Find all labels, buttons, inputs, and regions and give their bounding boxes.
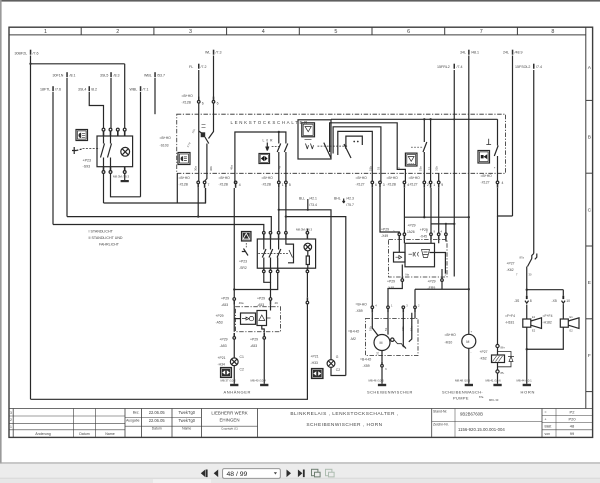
svg-text:-X49: -X49: [381, 234, 388, 238]
svg-text:/8.3: /8.3: [114, 74, 120, 78]
svg-text:3: 3: [383, 183, 385, 187]
svg-text:M8:46 /10.5: M8:46 /10.5: [369, 379, 385, 383]
svg-text:-A26: -A26: [408, 230, 415, 234]
motor M2 wires in: [372, 313, 415, 349]
A53 bottom connectors: [234, 333, 236, 336]
tag BLL: [307, 199, 309, 210]
wire WBL53 vertical: [154, 78, 156, 114]
left rows: [9, 415, 125, 417]
svg-text:/7.1: /7.1: [143, 88, 149, 92]
svg-text:=B+HO: =B+HO: [409, 176, 421, 180]
svg-text:-H182: -H182: [543, 320, 552, 324]
right row band line: [585, 27, 587, 408]
svg-text:/42.3: /42.3: [346, 196, 354, 200]
left revision section verticals: [12, 409, 14, 438]
A53 output jog: [262, 326, 264, 333]
motor park contact: [394, 340, 404, 348]
svg-text:/7.4: /7.4: [536, 65, 542, 69]
svg-text:-X59: -X59: [363, 364, 370, 368]
A26 nozzle output wire: [430, 253, 446, 274]
hazard icon box: [242, 232, 252, 242]
wire A26 out to X59-1: [388, 281, 402, 305]
tag BHL tick: [343, 199, 345, 204]
svg-text:8: 8: [530, 299, 532, 303]
svg-text:/8.1: /8.1: [70, 74, 76, 78]
washer feed horizontal: [415, 289, 469, 306]
turn switch contacts: [277, 132, 288, 152]
svg-text:-X49: -X49: [387, 286, 394, 290]
long return wire to 30BF2L: [31, 304, 308, 399]
svg-text:HORN: HORN: [521, 389, 536, 394]
svg-text:-X12B: -X12B: [182, 100, 192, 104]
svg-text:53b: 53b: [369, 166, 373, 171]
svg-text:WBL: WBL: [130, 88, 138, 92]
svg-text:+: +: [471, 330, 473, 334]
wiper lever arrows: [306, 144, 314, 150]
flasher unit A53 dashed box: [236, 307, 281, 332]
wire 30F1N vertical: [66, 78, 68, 217]
svg-text:-H181: -H181: [505, 320, 514, 324]
wire 34L feed H1: [404, 216, 468, 218]
wire line1 to S103 output: [104, 188, 206, 203]
pin stubs S93 bottom: [104, 167, 125, 171]
svg-text:Datum: Datum: [79, 432, 90, 436]
svg-text:C: C: [588, 207, 592, 213]
svg-text:+P29: +P29: [257, 297, 265, 301]
wire S93 pin1 to line1: [103, 174, 105, 204]
svg-text:6: 6: [407, 29, 410, 35]
S92 internal link wire: [286, 239, 294, 263]
svg-text:-S103: -S103: [160, 143, 169, 147]
wire 24L vertical: [512, 56, 514, 217]
svg-text:/42.1: /42.1: [309, 196, 317, 200]
wire 15FSOL2 vertical: [533, 70, 535, 254]
motor M2 circle: [374, 335, 390, 351]
svg-text:+P23: +P23: [239, 260, 247, 264]
svg-text:87a: 87a: [479, 395, 484, 399]
svg-text:-X12B: -X12B: [262, 182, 272, 186]
wire 24L to coil top: [498, 188, 513, 216]
turn switch L0R loop: [235, 132, 286, 183]
lenkstock labels: [160, 94, 504, 187]
svg-text:Copyright (C): Copyright (C): [221, 427, 238, 431]
svg-text:M8:41 /10.6: M8:41 /10.6: [486, 379, 502, 383]
svg-text:Stand-Nr.: Stand-Nr.: [433, 410, 447, 414]
svg-text:-X12B: -X12B: [219, 182, 229, 186]
svg-text:+P27: +P27: [480, 350, 488, 354]
svg-text:-SR2: -SR2: [239, 266, 247, 270]
svg-text:E1: E1: [532, 315, 536, 319]
svg-text:-A53: -A53: [257, 303, 264, 307]
wire interval out to H1: [423, 188, 425, 217]
interval wiper contact: [423, 119, 427, 181]
svg-text:22.06.05: 22.06.05: [149, 418, 166, 423]
svg-text:1: 1: [433, 183, 435, 187]
svg-text:15: 15: [428, 166, 432, 170]
svg-text:86+: 86+: [501, 345, 506, 349]
small table rows: [542, 415, 593, 417]
svg-text:49a: 49a: [230, 165, 234, 170]
wire stub from lenkstock box to line1: [176, 173, 178, 203]
svg-text:L 0 R: L 0 R: [263, 139, 274, 143]
svg-text:M8:L 30: M8:L 30: [489, 398, 499, 402]
svg-text:30F1N: 30F1N: [53, 74, 64, 78]
ground bar horn: [523, 384, 531, 386]
svg-text:8: 8: [551, 29, 554, 35]
svg-text:/75.7: /75.7: [346, 203, 354, 207]
connector X12B out a: [197, 181, 200, 184]
toolbar page icon 1: [312, 469, 321, 477]
svg-text:M: M: [466, 340, 469, 344]
svg-text:+P29: +P29: [221, 297, 229, 301]
svg-text:Name: Name: [182, 427, 191, 431]
svg-text:3SL5: 3SL5: [100, 74, 108, 78]
ground bar K62: [493, 384, 501, 386]
svg-text:+P21: +P21: [218, 356, 226, 360]
A53 relay element: [241, 313, 256, 324]
connector X12B-4 left: [234, 181, 237, 184]
svg-text:B: B: [588, 135, 591, 141]
svg-text:18FTL: 18FTL: [40, 88, 50, 92]
nav prev button: [214, 470, 219, 478]
svg-text:+P29: +P29: [216, 314, 224, 318]
svg-text:6: 6: [217, 102, 219, 106]
svg-text:4: 4: [239, 183, 241, 187]
svg-text:=F+F4: =F+F4: [543, 314, 553, 318]
svg-text:3: 3: [189, 29, 192, 35]
wiper control unit A26 dashed box: [389, 240, 448, 278]
horn H182: [560, 319, 568, 327]
node junction 30BF2L: [29, 63, 31, 65]
svg-text:31: 31: [375, 351, 379, 355]
svg-text:TwekTg0: TwekTg0: [178, 410, 195, 415]
svg-text:/7.4: /7.4: [457, 65, 463, 69]
wire S92 pin return: [234, 272, 277, 289]
svg-text:E: E: [588, 280, 591, 286]
svg-text:/48.9: /48.9: [515, 50, 523, 54]
svg-text:/48.1: /48.1: [471, 50, 479, 54]
pin circles S93 top: [102, 128, 126, 131]
wire FL vertical: [198, 70, 200, 100]
interval icon box: [405, 153, 417, 166]
svg-text:=B+HO: =B+HO: [445, 333, 457, 337]
svg-text:15FRL2: 15FRL2: [437, 65, 450, 69]
horn2 branch: [562, 290, 564, 296]
headlight icon box: [76, 130, 88, 141]
labels right section: [348, 224, 573, 403]
K62 suppression diode: [498, 352, 512, 367]
motor M2 output: [381, 351, 383, 362]
X59 connector row: [371, 306, 416, 313]
svg-text:C1: C1: [240, 355, 244, 359]
manual lever symbol S93: [72, 147, 76, 154]
nav first-page button: [201, 470, 218, 478]
wire pin9 to X45: [438, 188, 440, 233]
rotated wire number labels: [194, 165, 439, 355]
svg-text:3: 3: [10, 411, 12, 415]
wiper link dashes: [318, 145, 348, 147]
svg-text:1: 1: [10, 425, 12, 429]
A26 internal stubs: [399, 240, 446, 253]
svg-text:-X127: -X127: [409, 182, 418, 186]
svg-text:SCHEIBENWISCHER: SCHEIBENWISCHER: [367, 389, 413, 394]
horn relay K62 contact: [532, 254, 534, 259]
A53 triangle element: [257, 311, 267, 326]
hazard switch box S92: [257, 239, 315, 268]
svg-text:M8:37 /10.2: M8:37 /10.2: [221, 379, 237, 383]
horn1 connector: [526, 296, 528, 299]
relay K62 coil: [496, 344, 499, 347]
svg-text:48: 48: [570, 424, 575, 429]
svg-text:=B+HO: =B+HO: [360, 358, 372, 362]
svg-text:BLINKRELAIS , LENKSTOCKSCHALTE: BLINKRELAIS , LENKSTOCKSCHALTER ,: [290, 411, 398, 417]
tag M8 lamp feed: [306, 229, 308, 232]
switch S103 contact block: [201, 132, 206, 137]
svg-text:/8.2: /8.2: [91, 88, 97, 92]
svg-text:/7.6: /7.6: [33, 51, 39, 55]
svg-text:1: 1: [44, 29, 47, 35]
labels hazard and trailer: [216, 196, 354, 394]
svg-text:F: F: [588, 353, 591, 359]
svg-text:C2: C2: [336, 368, 340, 372]
svg-text:C2: C2: [240, 368, 244, 372]
lever arrow: [266, 143, 269, 151]
wire turn right output: [285, 188, 287, 232]
svg-text:+P23: +P23: [83, 159, 92, 163]
wire WBL7 vertical: [140, 92, 142, 197]
svg-text:=: =: [545, 411, 547, 415]
wire to trailer pilot lamp H34: [233, 339, 235, 358]
svg-text:49: 49: [278, 165, 282, 169]
svg-text:Zeichn-Nr.: Zeichn-Nr.: [433, 423, 449, 427]
wiper contact arm a: [324, 143, 331, 158]
svg-text:-X5: -X5: [552, 299, 557, 303]
svg-text:TwekTg0: TwekTg0: [178, 418, 195, 423]
ground bar pump: [465, 384, 473, 386]
svg-text:+P29: +P29: [428, 279, 436, 283]
svg-text:+P21: +P21: [311, 355, 319, 359]
svg-text:10: 10: [566, 299, 570, 303]
connector A53-49: [269, 298, 272, 301]
ground bar M8-46: [378, 384, 386, 386]
A26 inner module box: [405, 243, 435, 266]
svg-text:-K62: -K62: [507, 268, 514, 272]
horn H181: [523, 319, 531, 327]
A26 spray symbol: [422, 250, 430, 258]
ground bar M8-40: [260, 384, 268, 386]
svg-text:7: 7: [480, 29, 483, 35]
svg-text:=B+HO: =B+HO: [356, 303, 368, 307]
wire WL below connector: [209, 103, 214, 138]
S92 top pins: [263, 232, 309, 240]
wire S92 lamp output to feed loop: [306, 273, 308, 298]
wires into A53: [234, 305, 270, 332]
svg-text:Na: Na: [406, 273, 410, 277]
nav last-page button: [298, 470, 303, 478]
interval link dashes: [411, 146, 423, 148]
contact dots: [353, 141, 355, 143]
svg-text:/73.4: /73.4: [309, 203, 317, 207]
pump M10 ground wire: [468, 348, 470, 384]
wire pin9 stub: [438, 173, 440, 181]
svg-text:9: 9: [441, 183, 443, 187]
svg-text:FL: FL: [189, 65, 193, 69]
top column band line: [9, 34, 586, 36]
wiper contact arm b: [344, 144, 351, 158]
svg-text:/7.2: /7.2: [201, 65, 207, 69]
svg-text:49a: 49a: [239, 301, 244, 305]
svg-text:5: 5: [289, 183, 291, 187]
svg-text:M8:44 /10.1: M8:44 /10.1: [517, 379, 533, 383]
connector X12B out b: [203, 181, 206, 184]
wire washer switch: [430, 119, 432, 181]
svg-text:3SL4: 3SL4: [78, 88, 86, 92]
svg-text:-H34: -H34: [218, 362, 225, 366]
svg-text:FAHRLICHT: FAHRLICHT: [99, 243, 120, 247]
svg-text:-X127: -X127: [356, 182, 365, 186]
svg-text:P2: P2: [570, 410, 576, 415]
trailer icon box right: [312, 369, 324, 379]
wire S103 output: [205, 144, 207, 182]
svg-text:-: -: [471, 350, 472, 354]
page number field: [223, 469, 281, 479]
svg-text:+P29: +P29: [381, 227, 389, 231]
svg-text:-A53: -A53: [220, 344, 227, 348]
horn feed split: [527, 289, 564, 291]
toolbar page icon 2: [326, 469, 335, 477]
wiper switch assembly box: [298, 120, 331, 159]
svg-text:=B+HO: =B+HO: [160, 136, 172, 140]
svg-text:-3S: -3S: [514, 299, 520, 303]
svg-text:=B+HO: =B+HO: [387, 176, 399, 180]
wire connector7 down to line2: [197, 188, 199, 217]
svg-text:-K62: -K62: [480, 357, 487, 361]
svg-text:=B+HO: =B+HO: [179, 176, 191, 180]
svg-text:53: 53: [377, 166, 381, 170]
svg-text:-X45: -X45: [420, 234, 427, 238]
row letters: [588, 65, 592, 359]
link dashes L0R: [272, 146, 281, 148]
wire X12B4 to A26 pin: [403, 188, 405, 233]
wire 3SL4 with jog: [89, 92, 103, 128]
trailer lamp H33: [327, 360, 335, 368]
svg-text:/7.6: /7.6: [55, 88, 61, 92]
svg-text:4: 4: [502, 181, 504, 185]
svg-text:15FSOL2: 15FSOL2: [515, 65, 530, 69]
wire 30BF2L branch horizontal: [31, 63, 125, 65]
svg-text:Datum: Datum: [152, 427, 162, 431]
viewer top edge: [0, 0, 600, 2]
svg-text:LENKSTOCKSCHALTER: LENKSTOCKSCHALTER: [231, 120, 310, 125]
svg-text:1156-920.15.00.001-004: 1156-920.15.00.001-004: [458, 427, 505, 432]
A26 small element box: [394, 252, 406, 262]
pin circles S93 bottom: [102, 171, 126, 174]
S92 bottom pins: [263, 268, 309, 272]
horn1 to ground: [526, 327, 528, 384]
svg-text:WL: WL: [205, 50, 210, 54]
wire FL below connector: [198, 103, 200, 181]
S103 position texts: [186, 128, 196, 148]
svg-text:6: 6: [375, 183, 377, 187]
nav next button: [287, 470, 305, 478]
ground bar M8-37: [230, 384, 238, 386]
svg-text:-S93: -S93: [83, 165, 91, 169]
pilot lamp H34: [230, 358, 238, 366]
svg-text:48 / 99: 48 / 99: [227, 471, 248, 478]
svg-text:Ausgabe: Ausgabe: [126, 419, 139, 423]
ground bar S93: [121, 180, 129, 182]
svg-text:87a: 87a: [520, 256, 525, 260]
A26 plug symbols: [409, 252, 419, 256]
svg-text:Blatt: Blatt: [545, 425, 552, 429]
wire to A53 pin 49: [270, 282, 272, 297]
wire turn left output with branch: [278, 188, 280, 232]
S92 contacts: [264, 239, 279, 250]
S92 bottom U link: [264, 273, 271, 283]
svg-text:-H33: -H33: [311, 361, 318, 365]
wire X127-6 long down to X59: [371, 188, 373, 306]
svg-text:30a: 30a: [194, 166, 198, 171]
wire X12B4 down to A53: [233, 188, 235, 298]
wire S93 pin2 return to WBL: [111, 174, 141, 197]
svg-text:-ER9: -ER9: [428, 286, 436, 290]
svg-text:M8:3M /38.3: M8:3M /38.3: [113, 174, 129, 178]
svg-text:=B+HO: =B+HO: [219, 176, 231, 180]
svg-text:-M10: -M10: [445, 341, 453, 345]
svg-text:34L: 34L: [460, 50, 466, 54]
wire H33 loop return: [331, 367, 346, 375]
svg-text:1: 1: [282, 183, 284, 187]
relay box S93: [97, 136, 133, 167]
svg-text:BLL: BLL: [299, 196, 305, 200]
svg-text:+P29: +P29: [220, 337, 228, 341]
hazard lever symbol: [245, 243, 247, 248]
svg-text:PUMPE: PUMPE: [453, 395, 469, 400]
label 30BF2L: [15, 50, 543, 91]
horn button actuator: [486, 139, 491, 145]
svg-text:II STANDLICHT UND: II STANDLICHT UND: [89, 236, 123, 240]
connector X12B-1: [278, 181, 281, 184]
stand/zeichn divider: [432, 421, 542, 423]
svg-text:ANHÄNGER: ANHÄNGER: [224, 389, 251, 394]
S92 pilot lamp: [304, 243, 312, 251]
svg-text:-M2: -M2: [350, 337, 356, 341]
wire WL vertical: [213, 56, 215, 100]
svg-text:6: 6: [202, 102, 204, 106]
svg-text:31b: 31b: [435, 166, 439, 171]
svg-text:von: von: [545, 432, 551, 436]
wire S93 pin6 to ground: [124, 174, 126, 181]
switch S103 contact arm: [205, 137, 209, 144]
connector X12B-6b: [213, 97, 215, 100]
svg-text:Name: Name: [105, 432, 115, 436]
feed label ticks: [30, 50, 535, 91]
wire A53 right output to ground: [263, 339, 265, 383]
svg-text:2: 2: [116, 29, 119, 35]
svg-text:=B+HO: =B+HO: [262, 176, 274, 180]
connector X12B-6a: [198, 97, 200, 100]
connector row lenkstock bottom: [371, 181, 499, 188]
trailer icon box left: [221, 368, 232, 378]
top band ticks: [80, 27, 82, 35]
svg-text:M8:3M /38.3: M8:3M /38.3: [296, 228, 312, 232]
wiper icon square: [302, 123, 315, 137]
svg-text:-A53: -A53: [221, 303, 228, 307]
svg-text:E1: E1: [570, 315, 574, 319]
svg-text:=B+HO: =B+HO: [356, 176, 368, 180]
svg-text:/7.3: /7.3: [216, 50, 222, 54]
svg-text:7: 7: [208, 183, 210, 187]
